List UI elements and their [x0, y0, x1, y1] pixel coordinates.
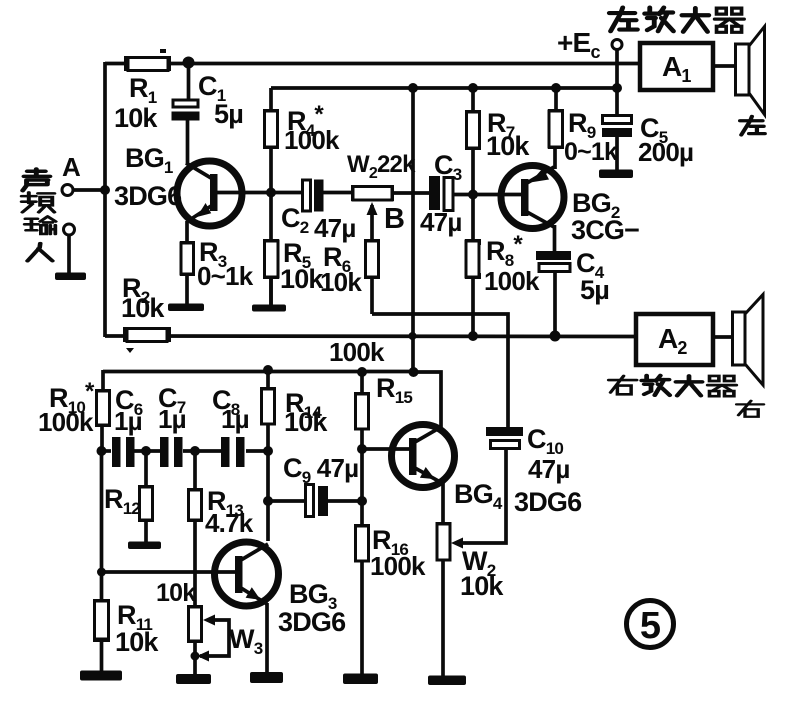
- wire top rail +Ec: [105, 62, 640, 66]
- svg-text:47µ: 47µ: [528, 454, 570, 484]
- capacitor C8: [221, 437, 245, 467]
- wire R6 jog to C10 feed: [372, 314, 508, 428]
- wire signal line BG1 base to C2: [217, 191, 302, 195]
- wire bottom rail to A2: [105, 334, 636, 338]
- potentiometer W2 10k body: [436, 522, 452, 561]
- wire +Ec feed vertical: [411, 88, 415, 372]
- resistor R8: [465, 239, 481, 279]
- wire left bus: [103, 62, 107, 337]
- junction W3 wiper tap: [191, 652, 200, 661]
- svg-text:47µ: 47µ: [314, 213, 356, 243]
- junction input A bus: [100, 185, 110, 195]
- wire lower +V rail: [103, 370, 414, 374]
- junction +Ec rail R9: [551, 83, 561, 93]
- wire W2 to ground: [441, 560, 445, 678]
- wire R15 top lead: [360, 372, 364, 395]
- junction R10 / C6 / lower bus: [97, 446, 107, 456]
- wire R13 to W3: [193, 519, 197, 608]
- ground R11: [80, 671, 122, 681]
- wire bus to C6: [101, 449, 111, 453]
- wire jog to BG4 collector: [413, 372, 441, 427]
- ground W3: [176, 674, 211, 684]
- wire R14 top lead: [266, 370, 270, 390]
- amplifier A1 box: [640, 43, 713, 90]
- wire R3 to ground: [185, 273, 189, 306]
- ground W2: [428, 676, 466, 686]
- wire W2 to C3: [393, 191, 429, 195]
- wire BG3 base line: [101, 570, 236, 574]
- stray speck above R1: [160, 49, 166, 53]
- wire BG2 collector to C4: [553, 225, 557, 252]
- svg-text:C3: C3: [434, 150, 462, 184]
- ground R5: [252, 305, 286, 312]
- svg-text:5: 5: [640, 605, 661, 647]
- resistor R1: [124, 56, 171, 71]
- transistor BG2: [501, 166, 564, 229]
- svg-text:5µ: 5µ: [214, 99, 243, 129]
- junction +Ec rail C5: [612, 83, 622, 93]
- svg-text:100k: 100k: [484, 266, 540, 296]
- wire C3 to BG2 base: [453, 193, 524, 197]
- potentiometer W3 wiper arrow: [203, 615, 215, 626]
- svg-text:100k: 100k: [329, 337, 385, 367]
- wire R12 to ground: [144, 519, 148, 544]
- svg-text:B: B: [384, 203, 404, 235]
- wire C7 to C8: [183, 449, 222, 453]
- transistor BG4: [392, 425, 455, 488]
- resistor R12: [138, 485, 154, 522]
- junction BG3 base / R11: [97, 568, 106, 577]
- wire R5 bottom to ground: [269, 277, 273, 306]
- junction C8 / R14 / BG3 collector branch: [263, 446, 273, 456]
- junction C7-C8 / R13: [190, 446, 200, 456]
- speaker right: [733, 295, 764, 386]
- svg-text:100k: 100k: [370, 551, 426, 581]
- resistor R10: [95, 389, 111, 427]
- wire W3 to ground: [193, 641, 197, 679]
- wire W2 wiper to R6: [370, 205, 374, 242]
- svg-text:10k: 10k: [320, 267, 362, 297]
- ground C5: [599, 170, 633, 179]
- resistor R13: [187, 488, 203, 522]
- resistor R16: [354, 524, 370, 562]
- resistor R15: [354, 392, 370, 430]
- wire C9 left lead: [268, 499, 305, 503]
- wire C8 to BG3 collector node: [246, 449, 268, 453]
- junction R8 output rail: [468, 331, 478, 341]
- resistor R7: [465, 110, 481, 150]
- resistor R2: [123, 327, 171, 342]
- wire R12 top lead: [144, 451, 148, 488]
- capacitor C9: [306, 485, 329, 517]
- resistor R14: [260, 387, 276, 425]
- svg-text:10k: 10k: [460, 571, 504, 601]
- capacitor C2: [303, 180, 324, 212]
- junction R1-C1 top rail: [183, 57, 195, 69]
- svg-text:W222k: W222k: [347, 151, 416, 182]
- svg-text:C9 47µ: C9 47µ: [283, 453, 358, 487]
- svg-text:3DG6: 3DG6: [114, 181, 182, 211]
- wire R11 to ground: [100, 638, 104, 673]
- junction C9 / BG3 collector: [263, 496, 273, 506]
- svg-text:10k: 10k: [114, 103, 158, 133]
- ground R16: [343, 674, 378, 685]
- CJK 右放大器: [609, 375, 737, 396]
- potentiometer W2 lower wiper arrow: [451, 538, 463, 549]
- svg-text:R1: R1: [129, 73, 157, 107]
- resistor R11: [93, 599, 110, 642]
- wire C6 to C7: [133, 449, 161, 453]
- junction C9 / R16: [357, 496, 367, 506]
- junction C6-C7 / R12: [141, 446, 151, 456]
- svg-text:R15: R15: [376, 373, 412, 407]
- wire C10 to W2 wiper: [462, 448, 506, 543]
- resistor R3: [180, 241, 195, 276]
- svg-text:1µ: 1µ: [158, 404, 186, 434]
- wire BG1 emitter to R3: [185, 221, 189, 244]
- junction +Ec rail feed vertical: [408, 83, 418, 93]
- capacitor C7: [160, 437, 183, 467]
- wire R9 to BG2 emitter: [553, 147, 557, 169]
- junction lower rail R14: [263, 365, 273, 375]
- ground input: [55, 273, 86, 281]
- svg-text:10k: 10k: [156, 579, 196, 607]
- capacitor C1: [172, 100, 200, 121]
- svg-text:BG1: BG1: [125, 143, 173, 177]
- wire +Ec lead: [615, 49, 619, 116]
- junction lower rail feed vertical: [409, 367, 419, 377]
- wire BG4 base: [362, 447, 410, 451]
- wire C1 to BG1 collector: [186, 119, 190, 165]
- wire R10 top lead: [101, 370, 105, 392]
- transistor BG3: [215, 542, 279, 606]
- svg-text:R12: R12: [104, 484, 140, 518]
- svg-text:47µ: 47µ: [420, 207, 462, 237]
- svg-text:+Ec: +Ec: [557, 27, 600, 62]
- svg-text:1µ: 1µ: [221, 404, 249, 434]
- svg-text:5µ: 5µ: [580, 275, 609, 305]
- wire R10 bottom: [100, 425, 104, 451]
- svg-text:1µ: 1µ: [114, 406, 142, 436]
- potentiometer W2 wiper arrow: [367, 202, 378, 215]
- svg-text:3DG6: 3DG6: [514, 487, 582, 517]
- resistor R4: [263, 109, 279, 149]
- wire R13 top lead: [193, 451, 197, 491]
- ground BG3 emitter: [250, 672, 283, 683]
- potentiometer W3 wiper end arrow: [197, 651, 209, 662]
- capacitor C6: [112, 437, 135, 467]
- svg-text:BG4: BG4: [454, 479, 503, 513]
- svg-text:10k: 10k: [486, 131, 530, 161]
- wire BG3 emitter to ground: [265, 603, 269, 674]
- wire W3 wiper: [200, 620, 229, 656]
- svg-text:R8*: R8*: [486, 231, 523, 270]
- terminal input lower: [64, 224, 75, 235]
- capacitor C5: [602, 116, 632, 138]
- CJK 右 speaker right: [737, 401, 764, 417]
- wire A1 to speaker: [713, 64, 736, 68]
- terminal +Ec: [612, 40, 622, 50]
- junction C4 output rail: [550, 331, 561, 342]
- transistor BG1: [177, 161, 242, 226]
- wire input A to bus: [72, 188, 105, 192]
- junction lower rail R15: [357, 367, 367, 377]
- wire R14 to BG3 collector: [266, 424, 270, 541]
- svg-text:3DG6: 3DG6: [278, 607, 346, 637]
- svg-text:100k: 100k: [284, 125, 340, 155]
- resistor R9: [548, 109, 564, 149]
- wire C1 branch upper: [187, 62, 191, 100]
- svg-text:100k: 100k: [38, 407, 94, 437]
- svg-text:4.7k: 4.7k: [205, 508, 254, 538]
- wire R7-R8 stack: [471, 88, 475, 336]
- wire BG4 emitter to W2: [441, 480, 445, 526]
- wire C4 to A2 rail: [553, 271, 557, 336]
- wire second +Ec rail: [271, 86, 617, 90]
- junction BG2 base / R7 / R8 / C3: [468, 190, 478, 200]
- svg-text:10k: 10k: [121, 293, 165, 323]
- ground R3: [168, 304, 204, 312]
- svg-text:R9: R9: [568, 108, 596, 142]
- wire R9 top: [554, 88, 558, 112]
- svg-text:10k: 10k: [284, 407, 328, 437]
- svg-text:W3: W3: [229, 624, 263, 658]
- wire R16 to ground: [360, 561, 364, 676]
- svg-text:A: A: [62, 152, 81, 182]
- resistor R5: [263, 239, 279, 279]
- capacitor C4: [536, 251, 571, 272]
- junction BG4 base / R15: [357, 444, 367, 454]
- ground R12: [128, 542, 161, 550]
- junction output rail feed vertical: [409, 332, 417, 340]
- wire input lower terminal to ground: [67, 234, 71, 276]
- figure number 5: [627, 601, 674, 648]
- potentiometer W2 22k body: [351, 185, 394, 201]
- wire C5 to ground: [615, 136, 619, 172]
- svg-text:10k: 10k: [280, 264, 324, 294]
- capacitor C3: [429, 176, 453, 211]
- svg-text:0~1k: 0~1k: [197, 261, 254, 291]
- CJK 声频输入 input label: [22, 169, 56, 261]
- wire R4-R5 stack: [269, 88, 273, 305]
- wire R15 to R16 node B4 base: [360, 429, 364, 527]
- wire R6 bottom: [370, 277, 374, 314]
- junction +Ec rail R7: [468, 83, 478, 93]
- CJK 左 speaker left: [740, 116, 765, 134]
- wire C2 to W2: [323, 191, 353, 195]
- resistor R6: [364, 239, 380, 279]
- svg-text:C10: C10: [527, 424, 563, 458]
- svg-text:3CG−: 3CG−: [571, 215, 639, 245]
- junction BG1 base / R4 / R5 / C2: [266, 188, 276, 198]
- terminal A: [62, 185, 73, 196]
- potentiometer W3 10k body: [187, 605, 203, 643]
- stray speck below R2: [126, 348, 134, 353]
- wire A2 to speaker: [713, 335, 733, 339]
- amplifier A2 box: [636, 314, 713, 365]
- svg-text:10k: 10k: [115, 627, 159, 657]
- capacitor C10: [486, 427, 523, 449]
- wire C9 right lead: [328, 499, 362, 503]
- wire lower-left bus: [100, 451, 104, 602]
- speaker left: [736, 27, 765, 115]
- svg-text:200µ: 200µ: [638, 137, 693, 167]
- CJK 左放大器 top right: [609, 8, 744, 33]
- svg-text:0~1k: 0~1k: [564, 138, 618, 166]
